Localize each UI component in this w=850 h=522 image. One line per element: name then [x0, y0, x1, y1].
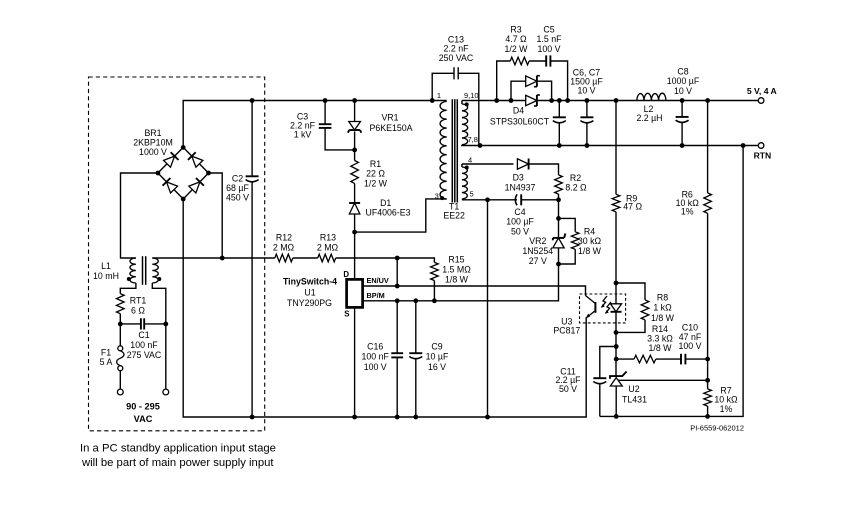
svg-text:100 V: 100 V [679, 341, 702, 351]
svg-text:100 nF: 100 nF [362, 352, 390, 362]
svg-text:R15: R15 [448, 255, 464, 265]
svg-text:10 V: 10 V [577, 85, 595, 95]
svg-text:C16: C16 [367, 342, 383, 352]
svg-text:UF4006-E3: UF4006-E3 [366, 208, 411, 218]
svg-text:1/8 W: 1/8 W [649, 343, 673, 353]
svg-text:VR1: VR1 [381, 113, 398, 123]
svg-text:RT1: RT1 [130, 296, 147, 306]
svg-text:C5: C5 [543, 25, 554, 35]
svg-text:2 MΩ: 2 MΩ [317, 242, 339, 252]
svg-text:R13: R13 [320, 233, 336, 243]
svg-text:100 V: 100 V [538, 44, 561, 54]
svg-text:5 V, 4 A: 5 V, 4 A [747, 86, 777, 96]
svg-text:1%: 1% [681, 206, 694, 216]
svg-text:R1: R1 [370, 159, 381, 169]
svg-text:VR2: VR2 [529, 236, 546, 246]
svg-text:100 µF: 100 µF [506, 217, 534, 227]
svg-text:3.3 kΩ: 3.3 kΩ [647, 334, 673, 344]
svg-text:27 V: 27 V [529, 256, 547, 266]
svg-text:50 V: 50 V [511, 226, 529, 236]
svg-text:30 kΩ: 30 kΩ [578, 236, 602, 246]
svg-text:EN/UV: EN/UV [367, 276, 389, 285]
svg-text:In a PC standby application in: In a PC standby application input stage [80, 443, 276, 455]
svg-text:50 V: 50 V [559, 384, 577, 394]
svg-text:10 mH: 10 mH [93, 271, 119, 281]
svg-text:D4: D4 [513, 106, 524, 116]
svg-text:F1: F1 [101, 348, 111, 358]
svg-text:1 kΩ: 1 kΩ [653, 303, 672, 313]
svg-text:10 µF: 10 µF [426, 352, 449, 362]
svg-text:1N4937: 1N4937 [505, 182, 536, 192]
svg-text:U1: U1 [304, 287, 315, 297]
svg-text:6 Ω: 6 Ω [131, 306, 145, 316]
svg-text:L1: L1 [101, 261, 111, 271]
svg-text:1000 V: 1000 V [139, 147, 167, 157]
svg-text:RTN: RTN [754, 151, 772, 161]
svg-text:VAC: VAC [134, 414, 153, 424]
svg-text:S: S [344, 310, 349, 319]
svg-text:R3: R3 [510, 25, 521, 35]
svg-text:275 VAC: 275 VAC [127, 350, 162, 360]
svg-text:PI-6559-062012: PI-6559-062012 [690, 424, 744, 433]
svg-text:1/8 W: 1/8 W [578, 246, 602, 256]
svg-text:will be part of main power sup: will be part of main power supply input [81, 457, 274, 469]
svg-text:5 A: 5 A [100, 357, 113, 367]
svg-text:1/8 W: 1/8 W [651, 313, 675, 323]
svg-text:22 Ω: 22 Ω [366, 169, 385, 179]
svg-text:250 VAC: 250 VAC [439, 53, 474, 63]
svg-text:90 - 295: 90 - 295 [126, 402, 160, 412]
svg-text:C4: C4 [514, 207, 525, 217]
svg-text:2KBP10M: 2KBP10M [133, 138, 173, 148]
svg-text:PC817: PC817 [553, 326, 580, 336]
svg-text:D: D [343, 270, 349, 279]
svg-text:TNY290PG: TNY290PG [287, 298, 332, 308]
svg-text:TinySwitch-4: TinySwitch-4 [283, 276, 337, 286]
svg-text:TL431: TL431 [622, 395, 647, 405]
svg-text:C9: C9 [431, 342, 442, 352]
svg-text:BP/M: BP/M [367, 291, 385, 300]
svg-text:5: 5 [470, 190, 474, 199]
svg-text:P6KE150A: P6KE150A [369, 123, 412, 133]
svg-text:8.2 Ω: 8.2 Ω [565, 183, 587, 193]
svg-text:2 MΩ: 2 MΩ [273, 242, 295, 252]
svg-text:1.5 MΩ: 1.5 MΩ [442, 264, 471, 274]
svg-text:100 nF: 100 nF [130, 340, 158, 350]
svg-text:R2: R2 [570, 173, 581, 183]
svg-text:1: 1 [437, 91, 441, 100]
svg-text:1N5254: 1N5254 [522, 246, 553, 256]
svg-text:STPS30L60CT: STPS30L60CT [490, 116, 550, 126]
svg-text:1/2 W: 1/2 W [505, 44, 529, 54]
svg-text:100 V: 100 V [364, 362, 387, 372]
svg-text:9,10: 9,10 [464, 91, 479, 100]
svg-text:1.5 nF: 1.5 nF [537, 34, 563, 44]
svg-text:U2: U2 [628, 384, 639, 394]
svg-text:1/8 W: 1/8 W [445, 274, 469, 284]
svg-text:47 Ω: 47 Ω [623, 202, 642, 212]
svg-text:2.2 µH: 2.2 µH [636, 113, 662, 123]
svg-text:C1: C1 [138, 330, 149, 340]
svg-text:1 kV: 1 kV [294, 130, 312, 140]
svg-text:R8: R8 [657, 293, 668, 303]
svg-text:10 V: 10 V [674, 86, 692, 96]
svg-text:1/2 W: 1/2 W [364, 178, 388, 188]
svg-text:3: 3 [435, 192, 439, 201]
svg-text:7,8: 7,8 [468, 135, 478, 144]
svg-text:450 V: 450 V [226, 193, 249, 203]
svg-text:4: 4 [468, 156, 472, 165]
svg-text:BR1: BR1 [144, 128, 161, 138]
svg-text:4.7 Ω: 4.7 Ω [505, 34, 527, 44]
svg-text:1%: 1% [720, 404, 733, 414]
svg-text:C8: C8 [677, 67, 688, 77]
svg-text:1000 µF: 1000 µF [667, 76, 700, 86]
svg-text:EE22: EE22 [443, 211, 465, 221]
svg-text:R12: R12 [276, 233, 292, 243]
svg-text:D3: D3 [513, 173, 524, 183]
svg-text:16 V: 16 V [428, 362, 446, 372]
svg-text:R4: R4 [584, 226, 595, 236]
svg-text:D1: D1 [380, 198, 391, 208]
svg-text:R14: R14 [652, 324, 668, 334]
